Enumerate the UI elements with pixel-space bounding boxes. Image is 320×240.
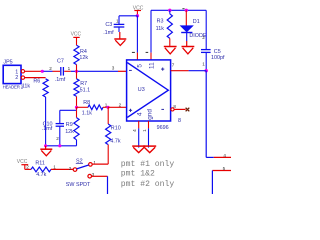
svg-text:U3: U3 [138,87,145,93]
svg-text:R7: R7 [80,81,87,87]
op-amp U3 body [127,60,171,131]
U3 bottom pin 4 wire [132,121,139,148]
wire R6 down to ground rail [45,97,47,146]
resistor R4 [74,45,88,64]
svg-text:pmt #1 only: pmt #1 only [121,160,175,169]
svg-text:D1: D1 [193,19,200,25]
resistor R6 [22,78,48,97]
svg-text:SW SPDT: SW SPDT [66,182,91,188]
svg-text:11k: 11k [22,84,31,90]
svg-text:2: 2 [202,35,205,40]
svg-text:C7: C7 [57,59,64,65]
wire C3 to ground [118,27,120,32]
node A0 junction C7/R4/R7 [75,70,78,73]
svg-text:2: 2 [15,75,18,81]
svg-text:4: 4 [223,153,226,158]
arrow terminal under pin 1 [143,146,156,153]
wire net 5 exit right [212,166,231,194]
power VCC top-mid [133,5,144,15]
svg-text:3: 3 [112,66,115,71]
svg-text:.1mf: .1mf [103,30,114,36]
arrow terminal under pin 4 [132,146,145,153]
U3 bottom pin 1 wire [142,121,149,148]
wire C5 to output node [205,52,207,70]
svg-text:1: 1 [68,66,71,71]
svg-text:8: 8 [178,118,181,124]
junction rail/D1 [185,9,188,12]
svg-text:HEADER 2: HEADER 2 [3,85,24,90]
svg-text:1: 1 [202,61,205,66]
wire VCC to C3 [119,15,137,17]
svg-text:2: 2 [119,103,122,108]
U3 pin7 output wire [171,62,207,70]
svg-text:.1mf: .1mf [55,77,66,83]
capacitor C10 [42,121,64,132]
pin number mark top pin 1 [132,51,135,53]
svg-text:7: 7 [172,62,175,67]
wire node A to C10 [76,107,78,110]
wire VCC rail down to U3 pin top-2 [150,10,152,52]
resistor R11 [25,161,56,178]
svg-text:5: 5 [136,64,143,68]
U3 plus mark pin7 [161,68,164,71]
wire net 4 exit right [206,153,231,158]
svg-text:R4: R4 [80,49,87,55]
capacitor C3 [103,19,124,36]
svg-text:4.7k: 4.7k [110,139,120,145]
U3 minus mark pin3 [129,69,132,71]
wire node B to U3 pin2 [108,106,127,108]
svg-text:R3: R3 [157,18,164,24]
resistor R7 [74,71,90,96]
wire switch pin1 to R10 [92,163,108,165]
junction C10/ground rail [58,144,61,147]
svg-text:VCC: VCC [71,31,82,37]
svg-text:C3: C3 [105,22,112,28]
junction R6/ground rail [44,144,47,147]
junction rail/R3 [168,9,171,12]
svg-text:8: 8 [173,104,176,109]
U3 minus mark pin8 [161,108,164,110]
wire node to C7 [44,70,53,72]
svg-text:gnd: gnd [147,109,154,120]
JP5 pin 2 terminal [21,76,24,79]
junction VCC/C3/U3 [136,14,139,17]
ground rail wire [46,145,77,147]
svg-text:5: 5 [223,166,226,171]
svg-text:JP5: JP5 [3,60,12,66]
svg-text:1.1k: 1.1k [82,111,92,117]
resistor R10 [106,107,121,144]
capacitor C7 [49,59,70,83]
svg-text:pmt 1&2: pmt 1&2 [121,170,155,179]
svg-text:4: 4 [137,112,144,116]
node junction at JP5 pin1 wire [41,70,44,73]
junction pin7/C5 [205,69,208,72]
ground symbol under R3 [164,47,177,54]
power VCC bottom-left [17,159,28,170]
wire JP5 pin2 to R6 [25,77,46,79]
wire output node down [205,71,207,158]
JP5 pin 1 terminal [21,70,24,73]
wire R9 to ground rail [76,140,78,146]
svg-text:51.1: 51.1 [80,88,91,94]
wire R10 to switch pin1 [107,145,109,165]
svg-text:pmt #2 only: pmt #2 only [121,180,175,189]
svg-text:2: 2 [26,164,29,169]
wire D1 to ground [186,33,188,42]
header JP5 [3,60,24,90]
ground symbol bottom-left [40,146,52,156]
svg-text:R8: R8 [83,100,90,106]
svg-text:1: 1 [116,19,119,24]
capacitor C5 [201,10,225,66]
wire VCC junction down to U3 pin top-1 [136,16,138,53]
switch S2 SW SPDT [66,158,97,187]
svg-text:9696: 9696 [157,125,169,131]
ground symbol under C3 [114,39,126,45]
wire JP5 pin1 to node [25,70,42,72]
node A junction R7/R8/R9 [75,106,78,109]
resistor R9 [65,110,79,140]
svg-text:1: 1 [142,129,147,132]
U3 pin8 no-connect [171,104,189,124]
node B junction R8/R10/pin2 [106,106,109,109]
svg-text:2: 2 [56,136,59,141]
svg-text:2: 2 [69,166,72,171]
diode D1 [180,10,207,39]
power VCC top-left [71,31,82,45]
wire switch pin3 exit bottom [92,175,108,177]
svg-text:R9: R9 [66,122,73,128]
svg-text:11: 11 [149,62,156,69]
D1 pin mark [182,8,184,10]
svg-text:1: 1 [53,164,56,169]
svg-text:100pf: 100pf [211,55,225,61]
svg-text:4.7k: 4.7k [36,172,46,178]
svg-text:4: 4 [132,129,137,132]
resistor R3 [156,10,173,38]
svg-text:11k: 11k [156,26,165,32]
wire R4 to node A0 [76,65,78,72]
pin number mark top pin 2 [146,51,149,53]
svg-text:12k: 12k [65,129,74,135]
wire R11 to switch [51,168,73,170]
wire R7 to node A [76,96,78,107]
svg-text:2: 2 [49,66,52,71]
U3 plus mark pin2 [129,109,132,112]
wire R3 to ground [169,38,171,46]
ground symbol under D1 [182,47,195,54]
svg-text:12k: 12k [79,55,88,61]
svg-text:.1mf: .1mf [42,126,53,132]
svg-text:R11: R11 [35,161,45,167]
wire C10 to ground rail [59,126,61,146]
wire pin3 stub [118,70,127,72]
VCC rail top [151,9,206,11]
svg-text:R6: R6 [33,78,40,84]
wire C7 to node A0 [64,70,71,72]
svg-text:R10: R10 [111,126,121,132]
resistor R8 [77,100,109,117]
